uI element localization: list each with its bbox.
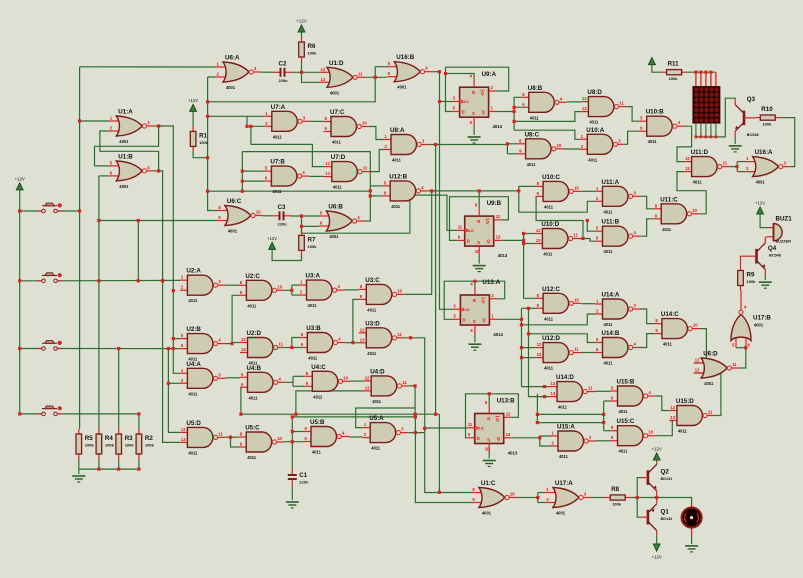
wire to U15:A pin2 bbox=[540, 438, 551, 446]
junction bbox=[245, 125, 248, 128]
junction bbox=[438, 100, 441, 103]
svg-text:10: 10 bbox=[277, 284, 282, 289]
svg-text:13: 13 bbox=[360, 337, 365, 342]
resistor R3 bbox=[116, 429, 134, 459]
wire U1:A out trunk bbox=[159, 126, 180, 373]
wire to U1:D pin13 bbox=[302, 72, 320, 82]
junction bbox=[241, 170, 244, 173]
wire U1:B out down to U5:D pin13 bbox=[154, 171, 180, 443]
junction bbox=[137, 412, 140, 415]
transistor Q4 bbox=[750, 237, 781, 275]
wire bbox=[370, 185, 382, 187]
svg-text:U11:D: U11:D bbox=[691, 149, 709, 156]
ground bbox=[286, 502, 299, 508]
svg-text:11: 11 bbox=[402, 380, 407, 385]
wire bbox=[292, 376, 294, 386]
wire U11:D out bbox=[730, 166, 738, 168]
svg-text:11: 11 bbox=[218, 431, 223, 436]
resistor R5 bbox=[76, 429, 94, 459]
wire to U13:B CLK bbox=[425, 427, 468, 429]
wire C1 riser bbox=[291, 417, 293, 468]
ground bbox=[468, 137, 481, 143]
svg-text:10: 10 bbox=[485, 447, 490, 452]
svg-text:4011: 4011 bbox=[648, 139, 658, 144]
wire R8 to emitters bbox=[630, 497, 657, 499]
junction bbox=[206, 190, 209, 193]
wire to U2:B pin5 bbox=[173, 338, 180, 340]
svg-text:U11:B: U11:B bbox=[602, 219, 620, 226]
svg-text:U12:B: U12:B bbox=[389, 173, 407, 180]
wire Q4 collector to buzzer bbox=[765, 236, 767, 239]
wire U7:A out to U7:C bbox=[310, 120, 324, 122]
gate U1:C bbox=[471, 480, 517, 516]
wire U2:C out bbox=[284, 289, 291, 291]
svg-text:U12:D: U12:D bbox=[542, 335, 560, 342]
wire U14:A out to U14:C bbox=[641, 309, 655, 324]
ground bbox=[685, 546, 698, 552]
junction bbox=[414, 431, 417, 434]
junction bbox=[18, 279, 21, 282]
svg-text:100k: 100k bbox=[669, 76, 679, 81]
svg-text:R9: R9 bbox=[747, 272, 755, 279]
wire Q3 collector to matrix bbox=[696, 98, 735, 137]
wire trunk to U14:D pin13 bbox=[529, 308, 550, 396]
wire U4:B out bbox=[286, 381, 294, 383]
svg-text:C3: C3 bbox=[278, 204, 286, 211]
svg-text:U14:A: U14:A bbox=[602, 292, 620, 299]
wire U4:C out to U4:D bbox=[350, 380, 363, 382]
wire U1:B out to U1:A pin2 bbox=[100, 131, 159, 171]
junction bbox=[369, 194, 372, 197]
junction bbox=[430, 189, 433, 192]
junction bbox=[18, 347, 21, 350]
wire U9:A reset bbox=[473, 125, 475, 135]
wire U1:D out to U16:B bbox=[365, 76, 387, 78]
junction bbox=[414, 384, 417, 387]
wire U15:D out to U6:D pin13 bbox=[694, 373, 721, 416]
svg-text:U10:B: U10:B bbox=[646, 109, 664, 116]
svg-text:U6:C: U6:C bbox=[227, 198, 242, 205]
junction bbox=[438, 491, 441, 494]
wire U13:A set riser bbox=[474, 281, 476, 287]
flip-flop U9:B bbox=[457, 200, 508, 258]
svg-text:U16:A: U16:A bbox=[755, 149, 773, 156]
svg-text:10: 10 bbox=[362, 121, 367, 126]
capacitor C2 bbox=[274, 60, 292, 83]
power +12V bbox=[188, 98, 198, 112]
svg-text:U6:B: U6:B bbox=[328, 204, 343, 211]
wire to U12:B pins bbox=[370, 195, 382, 197]
junction bbox=[414, 413, 417, 416]
wire to U6:A pin2 bbox=[208, 76, 216, 78]
wire to R7 bbox=[301, 226, 303, 230]
wire speaker to ground bbox=[691, 536, 693, 544]
wire U16:B out bbox=[432, 71, 439, 73]
wire bbox=[293, 375, 305, 377]
svg-text:12: 12 bbox=[360, 327, 365, 332]
wire to U14:A pin2 bbox=[522, 314, 596, 325]
resistor R6 bbox=[299, 37, 317, 62]
wire Q3 emitter to ground bbox=[734, 137, 736, 144]
svg-text:4011: 4011 bbox=[247, 303, 257, 308]
junction bbox=[290, 346, 293, 349]
wire Q1 collector to +12V bbox=[656, 536, 658, 544]
gate U4:B bbox=[240, 365, 286, 401]
gate U12:D bbox=[536, 335, 582, 371]
wire to ground bbox=[78, 469, 80, 474]
junction bbox=[241, 190, 244, 193]
wire to U14:D pin12 bbox=[522, 386, 550, 388]
junction bbox=[438, 70, 441, 73]
svg-text:U8:C: U8:C bbox=[525, 131, 540, 138]
wire U13:B Q bbox=[511, 437, 540, 439]
junction bbox=[374, 76, 377, 79]
svg-text:12: 12 bbox=[241, 337, 246, 342]
wire bbox=[99, 175, 109, 177]
svg-text:U5:B: U5:B bbox=[310, 419, 325, 426]
wire to U8:B pin5 bbox=[514, 97, 521, 111]
push button bbox=[38, 341, 62, 351]
svg-text:U17:A: U17:A bbox=[555, 480, 573, 487]
svg-text:4001: 4001 bbox=[754, 323, 764, 328]
wire bbox=[242, 170, 264, 172]
junction bbox=[291, 440, 294, 443]
wire trunk to U6:C pin8 bbox=[208, 77, 218, 211]
junction bbox=[527, 332, 530, 335]
junction bbox=[137, 219, 140, 222]
junction bbox=[709, 71, 712, 74]
svg-text:4011: 4011 bbox=[272, 189, 282, 194]
svg-text:11: 11 bbox=[358, 71, 363, 76]
wire bbox=[535, 195, 538, 197]
svg-text:10: 10 bbox=[343, 375, 348, 380]
wire to U15:A pin1 bbox=[540, 436, 551, 438]
wire to U14:B pin5 bbox=[529, 334, 596, 343]
svg-text:12: 12 bbox=[321, 67, 326, 72]
junction bbox=[137, 279, 140, 282]
wire U7:B bracket bbox=[241, 152, 243, 192]
gate U14:B bbox=[595, 330, 641, 366]
svg-text:U1:C: U1:C bbox=[481, 480, 496, 487]
wire U15 bracket bbox=[603, 401, 605, 431]
junction bbox=[157, 124, 160, 127]
svg-text:R7: R7 bbox=[308, 236, 316, 243]
gate U2:C bbox=[239, 273, 285, 309]
junction bbox=[172, 289, 175, 292]
svg-text:U7:B: U7:B bbox=[270, 159, 285, 166]
wire to speaker bbox=[657, 498, 692, 505]
gate U3:C bbox=[359, 277, 405, 313]
junction bbox=[249, 125, 252, 128]
junction bbox=[161, 279, 164, 282]
junction bbox=[167, 382, 170, 385]
wire bbox=[604, 400, 610, 402]
svg-text:R: R bbox=[487, 417, 490, 422]
wire bbox=[292, 284, 299, 286]
gate U10:A bbox=[580, 127, 626, 163]
wire C1 to ground bbox=[291, 486, 293, 500]
svg-text:13: 13 bbox=[695, 368, 700, 373]
svg-text:10: 10 bbox=[693, 323, 698, 328]
svg-text:4011: 4011 bbox=[308, 303, 318, 308]
svg-text:10: 10 bbox=[277, 436, 282, 441]
wire U4:A out to U4:B bbox=[225, 377, 240, 379]
wire U15:B out to U15:D pin12 bbox=[656, 396, 670, 411]
svg-text:4011: 4011 bbox=[273, 134, 283, 139]
junction bbox=[506, 142, 509, 145]
svg-text:12: 12 bbox=[325, 161, 330, 166]
gate U2:D bbox=[240, 330, 286, 366]
wire U13:A feedback bbox=[444, 281, 505, 319]
resistor R8 bbox=[605, 486, 630, 507]
junction bbox=[241, 180, 244, 183]
junction bbox=[409, 336, 412, 339]
svg-text:12: 12 bbox=[496, 214, 501, 219]
svg-text:R8: R8 bbox=[611, 486, 619, 493]
svg-text:U5:C: U5:C bbox=[245, 425, 260, 432]
wire U9:B Q bbox=[501, 239, 523, 241]
junction bbox=[414, 415, 417, 418]
junction bbox=[291, 430, 294, 433]
wire U2:B out to U2:D bbox=[225, 343, 240, 344]
power +12V bbox=[649, 58, 656, 65]
gate U6:D bbox=[694, 351, 740, 387]
svg-text:4001: 4001 bbox=[482, 511, 492, 516]
junction bbox=[78, 119, 81, 122]
junction bbox=[167, 347, 170, 350]
wire to U6:B pin6 bbox=[302, 216, 319, 226]
wire Q2 collector to +12V bbox=[656, 453, 658, 459]
svg-text:+12V: +12V bbox=[755, 201, 765, 206]
gate U1:B bbox=[109, 153, 155, 189]
wire to U16:B pin5 bbox=[375, 67, 387, 78]
capacitor C3 bbox=[273, 204, 291, 227]
svg-text:4011: 4011 bbox=[544, 316, 554, 321]
gate U8:D bbox=[581, 89, 627, 125]
gate U10:C bbox=[536, 174, 582, 210]
svg-text:4011: 4011 bbox=[589, 120, 599, 125]
wire column R3 bbox=[118, 349, 120, 430]
svg-text:U6:D: U6:D bbox=[703, 351, 718, 358]
svg-text:BD131: BD131 bbox=[661, 477, 673, 481]
wire to U5:B pin8 bbox=[292, 431, 303, 433]
junction bbox=[704, 71, 707, 74]
svg-text:11: 11 bbox=[468, 422, 473, 427]
gate U3:A bbox=[299, 273, 345, 309]
svg-text:S: S bbox=[473, 319, 476, 324]
wire to U4:A pin2 bbox=[168, 382, 180, 384]
svg-text:100k: 100k bbox=[747, 279, 757, 284]
wire bus y414 right bbox=[537, 413, 603, 415]
junction bbox=[520, 318, 523, 321]
wire to U15:C pin8 bbox=[604, 430, 610, 432]
svg-text:10: 10 bbox=[510, 492, 515, 497]
wire ground bus bbox=[79, 468, 139, 470]
svg-text:R: R bbox=[477, 219, 480, 224]
gate U3:D bbox=[359, 320, 405, 356]
svg-text:R: R bbox=[473, 298, 476, 303]
wire bus y417 bbox=[292, 417, 415, 433]
gate U15:D bbox=[669, 398, 715, 434]
junction bbox=[78, 209, 81, 212]
svg-text:BD132: BD132 bbox=[661, 517, 673, 521]
wire U6:C out to C3 bbox=[263, 215, 273, 217]
svg-text:11: 11 bbox=[363, 166, 368, 171]
junction bbox=[137, 468, 140, 471]
gate U7:C bbox=[324, 109, 370, 145]
junction bbox=[520, 323, 523, 326]
svg-text:4011: 4011 bbox=[663, 342, 673, 347]
wire to U16:A pins bbox=[737, 171, 745, 173]
svg-text:4011: 4011 bbox=[604, 249, 614, 254]
svg-text:13: 13 bbox=[670, 415, 675, 420]
junction bbox=[231, 342, 234, 345]
junction bbox=[536, 421, 539, 424]
svg-text:11: 11 bbox=[573, 233, 578, 238]
wire bus y102 bbox=[208, 77, 376, 102]
svg-text:Q1: Q1 bbox=[661, 508, 670, 515]
gate U15:B bbox=[610, 379, 656, 415]
svg-text:U8:B: U8:B bbox=[528, 85, 543, 92]
wire R7 to +12V bbox=[272, 249, 301, 260]
svg-text:12: 12 bbox=[536, 228, 541, 233]
junction bbox=[694, 71, 697, 74]
wire to U6:A pin1 bbox=[80, 66, 216, 68]
resistor R11 bbox=[662, 61, 687, 82]
svg-text:D: D bbox=[467, 239, 470, 244]
capacitor C1 bbox=[288, 468, 309, 486]
junction bbox=[434, 143, 437, 146]
junction bbox=[444, 72, 447, 75]
wire to U7:D pin12 bbox=[251, 144, 324, 166]
svg-text:4011: 4011 bbox=[188, 450, 198, 455]
wire bbox=[20, 210, 42, 212]
junction bbox=[434, 413, 437, 416]
wire to U9:B CLK bbox=[302, 195, 458, 233]
wire feedback to U10:C pin9 bbox=[536, 196, 583, 238]
wire buzzer to +12V bbox=[760, 214, 767, 228]
wire to U11:B pin5 bbox=[587, 221, 595, 232]
svg-text:100k: 100k bbox=[125, 443, 135, 448]
wire button3 row bbox=[57, 348, 179, 350]
svg-text:4011: 4011 bbox=[333, 185, 343, 190]
wire to U12:D pin12 bbox=[522, 347, 536, 349]
svg-text:220n: 220n bbox=[278, 221, 288, 226]
wire to U8:C pins bbox=[507, 153, 518, 155]
svg-text:U2:D: U2:D bbox=[247, 330, 262, 337]
svg-text:4001: 4001 bbox=[756, 180, 766, 185]
svg-text:4011: 4011 bbox=[249, 395, 259, 400]
wire U13:B feedback bbox=[466, 394, 519, 438]
wire bbox=[154, 125, 158, 127]
svg-text:BC548: BC548 bbox=[769, 254, 781, 258]
wire to U3:A pins bbox=[292, 294, 299, 296]
wire R10 to Q3 base bbox=[751, 117, 756, 119]
svg-text:4011: 4011 bbox=[662, 227, 672, 232]
wire to U8:B pin6 bbox=[514, 106, 521, 108]
wire U2:A out to U2:C bbox=[225, 284, 239, 286]
power +12V bbox=[267, 236, 277, 250]
gate U16:A bbox=[745, 149, 791, 185]
junction bbox=[699, 71, 702, 74]
svg-text:12: 12 bbox=[365, 375, 370, 380]
gate U7:B bbox=[264, 159, 310, 195]
wire U8:C out to U10:A bbox=[564, 148, 580, 150]
wire trunk x436 bbox=[435, 145, 437, 415]
wire to U3:C pin9 bbox=[353, 299, 359, 342]
svg-text:4013: 4013 bbox=[498, 253, 508, 258]
junction bbox=[369, 189, 372, 192]
wire trunk bbox=[513, 112, 515, 131]
transistor Q1 bbox=[641, 498, 672, 536]
svg-text:4011: 4011 bbox=[392, 158, 402, 163]
svg-text:S: S bbox=[472, 111, 475, 116]
wire U11:A out to U11:C bbox=[641, 196, 654, 209]
svg-text:13: 13 bbox=[582, 106, 587, 111]
svg-text:4011: 4011 bbox=[559, 454, 569, 459]
wire bus to U6:C pin9 bbox=[99, 220, 217, 222]
wire to U7:A pin1 bbox=[208, 115, 247, 117]
junction bbox=[161, 279, 164, 282]
svg-text:12: 12 bbox=[582, 96, 587, 101]
wire R1 bottom bbox=[193, 151, 208, 157]
wire U14:D out to U15:B bbox=[595, 390, 610, 392]
svg-text:100k: 100k bbox=[105, 443, 115, 448]
svg-text:10: 10 bbox=[574, 185, 579, 190]
gate U11:C bbox=[654, 196, 700, 232]
gate U10:B bbox=[639, 109, 685, 145]
wire U3:C out up bbox=[404, 191, 431, 295]
junction bbox=[423, 427, 426, 430]
svg-text:100k: 100k bbox=[199, 140, 209, 145]
svg-text:R2: R2 bbox=[145, 435, 153, 442]
wire to U10:D pins bbox=[524, 243, 535, 245]
svg-text:R3: R3 bbox=[125, 435, 133, 442]
junction bbox=[290, 289, 293, 292]
wire R9 to Q4 base bbox=[741, 256, 751, 265]
wire to U4:D pin13 bbox=[296, 391, 364, 414]
wire bbox=[20, 280, 42, 282]
gate U6:C bbox=[217, 198, 263, 234]
ground bbox=[468, 344, 481, 350]
svg-text:4011: 4011 bbox=[619, 409, 629, 414]
wire button2 row bbox=[57, 279, 179, 281]
junction bbox=[206, 115, 209, 118]
resistor R4 bbox=[96, 429, 114, 459]
wire bbox=[507, 143, 518, 145]
junction bbox=[172, 337, 175, 340]
wire U17:A out to R8 bbox=[591, 497, 605, 499]
svg-text:U17:B: U17:B bbox=[753, 315, 771, 322]
svg-text:4011: 4011 bbox=[371, 446, 381, 451]
wire to Q2 base bbox=[637, 478, 641, 498]
svg-text:4011: 4011 bbox=[308, 356, 318, 361]
wire U2:D out to U3:B bbox=[286, 347, 300, 349]
svg-text:R10: R10 bbox=[761, 106, 773, 113]
junction bbox=[543, 395, 546, 398]
wire U3:A out to U3:C bbox=[345, 289, 359, 291]
svg-text:U8:D: U8:D bbox=[587, 89, 602, 96]
svg-text:4011: 4011 bbox=[367, 307, 377, 312]
wire U17:B out to R9 bbox=[740, 291, 742, 311]
svg-text:Q3: Q3 bbox=[747, 96, 756, 103]
svg-text:13: 13 bbox=[536, 238, 541, 243]
svg-text:13: 13 bbox=[496, 235, 501, 240]
svg-text:4011: 4011 bbox=[372, 399, 382, 404]
wire U7:A bracket bbox=[247, 115, 264, 117]
svg-text:4011: 4011 bbox=[619, 449, 629, 454]
junction bbox=[744, 346, 747, 349]
